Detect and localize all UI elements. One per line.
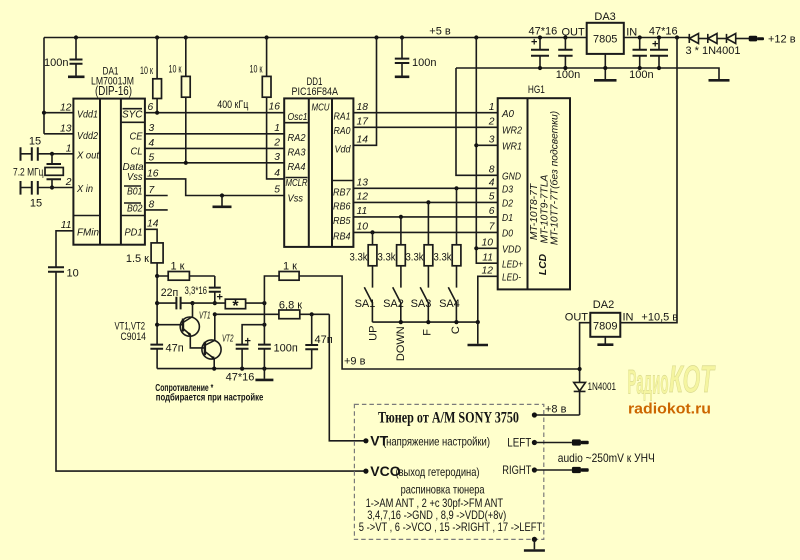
- svg-text:B02: B02: [127, 204, 143, 215]
- wire RA1 row to A0: [353, 112, 497, 114]
- wire switch bottom bus: [372, 321, 477, 323]
- svg-text:SA3: SA3: [411, 298, 432, 310]
- IC DA1 LM7001JM: [73, 66, 144, 245]
- diode VD 1N4001 (to +8): [574, 381, 616, 415]
- wire LED- to switch bus: [478, 276, 498, 322]
- wire RA0 row to WR2: [353, 126, 497, 128]
- svg-text:100n: 100n: [629, 69, 653, 81]
- wire between diodes: [717, 38, 727, 40]
- resistor 6,8 к: [215, 300, 329, 319]
- switch SA2: [383, 287, 404, 322]
- resistor 3.3k #4: [434, 188, 461, 287]
- capacitor C 100n (second, x=402): [395, 38, 437, 77]
- wire LEFT audio: [534, 442, 572, 444]
- svg-text:VT2: VT2: [222, 334, 234, 345]
- wire RB6 row to D2: [353, 201, 497, 203]
- svg-text:7.2 МГц: 7.2 МГц: [13, 167, 44, 179]
- LCD HG1: [498, 84, 570, 289]
- switch SA1: [355, 287, 376, 322]
- wire CE row to RA2: [145, 133, 284, 135]
- svg-text:SA2: SA2: [383, 298, 404, 310]
- svg-text:LED-: LED-: [502, 273, 521, 284]
- svg-text:RB6: RB6: [333, 202, 351, 213]
- svg-text:10 к: 10 к: [140, 65, 153, 77]
- ground at tuner: [533, 539, 535, 549]
- svg-text:+: +: [652, 39, 658, 51]
- svg-text:SYC: SYC: [122, 110, 143, 121]
- wire +5V top rail: [44, 37, 587, 39]
- HG1 rotated type labels: [529, 111, 561, 275]
- capacitor C 100n (left): [44, 38, 84, 77]
- svg-text:+9 в: +9 в: [344, 356, 366, 368]
- node bullet VT: [363, 438, 368, 443]
- quartz crystal 7.2 MHz: [13, 154, 63, 188]
- capacitor 15 (top, X out): [21, 136, 74, 161]
- svg-text:3 * 1N4001: 3 * 1N4001: [685, 45, 740, 57]
- svg-text:47*16: 47*16: [529, 26, 558, 38]
- svg-text:13: 13: [357, 178, 369, 189]
- node dot 47*16 top junction: [262, 323, 266, 327]
- wire between diodes: [699, 38, 708, 40]
- svg-text:LCD: LCD: [538, 253, 549, 275]
- wire left vertical to Vdd1/Vdd2: [43, 38, 45, 134]
- svg-text:подбирается при настройке: подбирается при настройке: [156, 392, 264, 404]
- svg-text:SA1: SA1: [355, 298, 376, 310]
- svg-text:VDD: VDD: [502, 245, 521, 256]
- resistor 10k #3: [250, 38, 285, 179]
- svg-text:10: 10: [357, 222, 369, 233]
- svg-text:100n: 100n: [556, 69, 580, 81]
- wire B01 stub: [145, 195, 168, 197]
- svg-text:Osc1: Osc1: [288, 112, 308, 123]
- DA1 pin numbers: [60, 102, 159, 231]
- wire rail to WR1/VDD/LED+ vertical: [476, 38, 497, 264]
- wire oscillator ground bus: [157, 368, 312, 370]
- node dots on oscillator line: [190, 301, 194, 305]
- DA1 pin names right column: [122, 109, 144, 239]
- svg-text:16: 16: [269, 102, 281, 113]
- svg-text:10 к: 10 к: [250, 64, 263, 76]
- capacitor 22п: [157, 287, 192, 310]
- tuner pinout text: [359, 483, 542, 534]
- node dot X in: [50, 185, 54, 189]
- svg-text:Vdd2: Vdd2: [77, 131, 98, 142]
- svg-text:RB7: RB7: [333, 188, 352, 199]
- node dot WR1: [474, 143, 478, 147]
- wire GND(HG1) up to ground bus: [456, 68, 498, 175]
- svg-text:+: +: [217, 292, 223, 304]
- voltage regulator DA2 7809: [565, 299, 634, 337]
- wire to +12 plug: [736, 38, 749, 40]
- wire Vdd(DD1) to rail: [353, 38, 376, 146]
- svg-text:SA4: SA4: [439, 298, 460, 310]
- wire VDD stub: [476, 247, 497, 249]
- node bullet tuner ground: [532, 537, 537, 542]
- svg-text:14: 14: [357, 135, 369, 146]
- resistor 10k #2: [169, 38, 191, 163]
- svg-text:B01: B01: [127, 187, 143, 198]
- svg-text:10 к: 10 к: [169, 64, 182, 76]
- ground at oscillator bus: [263, 369, 265, 379]
- wire Data row to RA4: [145, 162, 284, 164]
- svg-text:5: 5: [274, 185, 280, 196]
- svg-text:10: 10: [482, 238, 494, 249]
- svg-text:12: 12: [60, 103, 72, 114]
- svg-text:RA1: RA1: [334, 112, 351, 123]
- ground under 7805: [604, 54, 606, 79]
- ground under 7809: [604, 337, 606, 344]
- wire pin12 Vdd1: [44, 112, 73, 114]
- svg-text:2: 2: [488, 117, 495, 128]
- svg-text:(напряжение настройки): (напряжение настройки): [383, 436, 490, 449]
- svg-text:3,3*16: 3,3*16: [185, 285, 208, 297]
- svg-text:D0: D0: [502, 229, 513, 240]
- svg-text:F: F: [421, 329, 433, 336]
- svg-text:47*16: 47*16: [649, 26, 678, 38]
- svg-text:PD1: PD1: [125, 228, 143, 239]
- ground at switch bus: [477, 322, 479, 344]
- capacitor 47*16 (oscillator): [226, 325, 265, 384]
- svg-text:15: 15: [29, 136, 41, 148]
- svg-text:*: *: [232, 298, 239, 315]
- svg-text:2: 2: [273, 138, 280, 149]
- svg-text:A0: A0: [501, 109, 514, 120]
- svg-text:6: 6: [489, 206, 495, 217]
- svg-text:1 к: 1 к: [283, 261, 297, 273]
- svg-text:47*16: 47*16: [226, 372, 255, 384]
- resistor 3.3k #3: [406, 202, 433, 287]
- capacitor C 47*16 (right of 7805): [649, 26, 678, 69]
- svg-text:MT-10T8-7T: MT-10T8-7T: [529, 183, 540, 240]
- svg-text:5: 5: [489, 192, 495, 203]
- svg-text:LED+: LED+: [502, 260, 523, 271]
- svg-text:6,8 к: 6,8 к: [279, 300, 302, 312]
- wire +12 rail right of 7805: [624, 37, 690, 39]
- svg-text:RA4: RA4: [288, 162, 306, 173]
- svg-text:1.5 к: 1.5 к: [126, 253, 149, 265]
- svg-text:5: 5: [149, 153, 155, 164]
- node dot star/100п junction: [262, 301, 266, 305]
- svg-text:DOWN: DOWN: [395, 326, 407, 361]
- ground at Vss node: [221, 196, 223, 206]
- svg-text:8: 8: [149, 200, 155, 211]
- capacitor 47п #1: [150, 343, 183, 369]
- svg-text:5 ->VT , 6 ->VCO , 15 ->RIGHT: 5 ->VT , 6 ->VCO , 15 ->RIGHT , 17 ->LEF…: [359, 521, 542, 534]
- node dot VT2 collector / 6.8k: [213, 312, 217, 316]
- wire RB7 row to D3: [353, 187, 497, 189]
- svg-text:18: 18: [357, 102, 369, 113]
- connector plug +12: [749, 36, 758, 42]
- wire FMin cap down to VCO line: [56, 272, 366, 471]
- svg-text:100п: 100п: [274, 343, 298, 355]
- svg-text:WR1: WR1: [502, 142, 522, 153]
- svg-text:MT-10T7-7T(без подсветки): MT-10T7-7T(без подсветки): [549, 111, 561, 245]
- capacitor 15 (bottom, X in): [21, 181, 74, 210]
- svg-text:radiokot.ru: radiokot.ru: [628, 402, 711, 418]
- capacitor 3,3*16: [185, 276, 223, 304]
- wire 7809 OUT down: [580, 323, 591, 383]
- switch SA4: [439, 287, 460, 322]
- connector plug RIGHT: [572, 467, 581, 473]
- svg-text:100n: 100n: [412, 57, 436, 69]
- svg-text:(выход гетеродина): (выход гетеродина): [396, 466, 480, 479]
- diode VD1 1N4001: [689, 34, 698, 44]
- resistor 3.3k #1: [350, 232, 377, 287]
- node dot VDD row on vertical: [474, 246, 478, 250]
- HG1 pin numbers: [482, 102, 496, 277]
- svg-text:CL: CL: [131, 147, 143, 158]
- svg-text:100n: 100n: [44, 57, 68, 69]
- svg-text:+: +: [245, 336, 251, 348]
- svg-text:RA3: RA3: [288, 148, 306, 159]
- svg-text:+12 в: +12 в: [768, 34, 796, 46]
- svg-text:(DIP-16): (DIP-16): [95, 84, 132, 98]
- svg-text:4: 4: [489, 178, 495, 189]
- svg-text:КОТ: КОТ: [669, 359, 716, 401]
- svg-text:UP: UP: [368, 326, 380, 341]
- DA1 pin names left column: [76, 110, 100, 239]
- HG1 pin names: [501, 109, 523, 284]
- svg-text:D2: D2: [502, 199, 513, 210]
- svg-text:распиновка тюнера: распиновка тюнера: [401, 483, 485, 496]
- wire +8 line to tuner: [534, 414, 579, 416]
- svg-text:7809: 7809: [593, 321, 617, 333]
- svg-text:DA2: DA2: [593, 299, 614, 311]
- wire +12 vertical down to 7809 IN: [620, 38, 677, 323]
- svg-text:11: 11: [357, 206, 368, 217]
- capacitor 47п #2: [305, 314, 332, 368]
- svg-text:1: 1: [66, 144, 72, 155]
- svg-text:3: 3: [149, 123, 155, 134]
- voltage regulator DA3 7805: [561, 11, 637, 54]
- svg-text:X out: X out: [76, 151, 100, 162]
- wire RB5 row to D1: [353, 216, 497, 218]
- svg-text:audio ~250mV к УНЧ: audio ~250mV к УНЧ: [558, 451, 655, 465]
- wire pin13 Vdd2: [44, 133, 73, 135]
- wire RB4 row to D0: [353, 231, 497, 233]
- svg-text:14: 14: [147, 219, 159, 230]
- svg-text:RB4: RB4: [333, 232, 351, 243]
- svg-text:Тюнер от А/М SONY 3750: Тюнер от А/М SONY 3750: [378, 410, 519, 427]
- resistor 1k #1: [157, 261, 215, 281]
- svg-text:Радио: Радио: [628, 364, 669, 402]
- diode VD2 1N4001: [708, 34, 717, 44]
- svg-text:3.3k: 3.3k: [378, 252, 396, 264]
- capacitor 10 (FMin): [48, 267, 79, 279]
- svg-text:3.3k: 3.3k: [406, 252, 424, 264]
- svg-text:RA2: RA2: [288, 133, 306, 144]
- wire Vss(DA1) stepped to Vss(DD1): [145, 179, 284, 196]
- svg-text:D3: D3: [502, 185, 513, 196]
- wire WR1 stub: [476, 144, 497, 146]
- svg-text:4: 4: [274, 168, 280, 179]
- node dot +9 junction: [578, 367, 582, 371]
- node dot 1k/1.5k junction: [155, 274, 159, 278]
- wire 6.8k to VT terminal: [329, 314, 366, 441]
- svg-text:22п: 22п: [161, 287, 179, 299]
- capacitor C 100n (left of 7805): [556, 38, 580, 82]
- svg-text:13: 13: [60, 124, 72, 135]
- svg-text:8: 8: [489, 165, 495, 176]
- connector plug LEFT: [572, 439, 581, 445]
- svg-text:PIC16F84A: PIC16F84A: [292, 86, 339, 98]
- resistor 10k #1: [140, 38, 162, 113]
- svg-text:3.3k: 3.3k: [434, 252, 452, 264]
- node bullet LEFT: [532, 440, 537, 445]
- svg-text:OUT: OUT: [565, 312, 589, 324]
- resistor * (select on tuning): [225, 298, 264, 315]
- svg-text:MCU: MCU: [312, 103, 330, 114]
- node dot 47п#2: [310, 312, 314, 316]
- wire PD1 to 1.5k: [145, 229, 157, 243]
- svg-text:1: 1: [489, 102, 495, 113]
- svg-text:RA0: RA0: [334, 126, 351, 137]
- svg-text:C: C: [450, 326, 462, 334]
- DD1 pin numbers: [269, 102, 370, 233]
- svg-text:CE: CE: [130, 132, 143, 143]
- node rail junction dots: [74, 35, 78, 39]
- node bullet VCO: [363, 469, 368, 474]
- svg-text:FMin: FMin: [77, 228, 99, 239]
- diode VD3 1N4001: [727, 34, 736, 44]
- svg-text:17: 17: [357, 117, 370, 128]
- wire RIGHT audio: [534, 469, 572, 471]
- svg-text:GND: GND: [502, 172, 521, 183]
- svg-text:RB5: RB5: [333, 216, 351, 227]
- wire SYC row to Osc1: [145, 112, 284, 114]
- svg-text:X in: X in: [76, 184, 93, 195]
- svg-text:1N4001: 1N4001: [588, 381, 617, 393]
- svg-text:1: 1: [274, 123, 280, 134]
- tuner dashed box: [354, 404, 543, 539]
- node dot X out: [50, 152, 54, 156]
- svg-text:D1: D1: [502, 213, 513, 224]
- svg-text:C9014: C9014: [121, 331, 147, 343]
- svg-text:10: 10: [67, 268, 79, 280]
- transistor VT1: [157, 303, 210, 348]
- node dot pin12: [42, 111, 46, 115]
- wire node vertical x=157 down: [156, 276, 158, 345]
- svg-text:12: 12: [357, 192, 369, 203]
- svg-text:+10,5 в: +10,5 в: [641, 312, 678, 324]
- ground at right end of bus: [709, 79, 730, 82]
- wire FMin pin11: [56, 231, 73, 267]
- svg-text:Vdd: Vdd: [335, 145, 351, 156]
- node bullet RIGHT: [532, 467, 537, 472]
- svg-text:Vdd1: Vdd1: [77, 110, 98, 121]
- svg-text:RIGHT: RIGHT: [502, 463, 532, 477]
- svg-text:4: 4: [149, 138, 155, 149]
- switch SA3: [411, 287, 432, 322]
- svg-text:15: 15: [30, 198, 42, 210]
- svg-text:400 кГц: 400 кГц: [217, 99, 249, 111]
- svg-text:12: 12: [482, 266, 494, 277]
- svg-text:16: 16: [147, 169, 159, 180]
- wire ground bus y=68: [456, 68, 719, 79]
- svg-text:Vss: Vss: [288, 194, 304, 205]
- svg-text:+5 в: +5 в: [429, 26, 451, 38]
- svg-text:LEFT: LEFT: [507, 436, 532, 450]
- DD1 pin names: [286, 103, 352, 243]
- svg-text:3: 3: [274, 152, 280, 163]
- svg-text:6: 6: [148, 102, 154, 113]
- resistor 1.5k: [126, 243, 163, 276]
- svg-text:47п: 47п: [166, 343, 184, 355]
- svg-text:IN: IN: [623, 312, 634, 324]
- resistor 3.3k #2: [378, 217, 406, 288]
- logo Радио КОТ: [628, 359, 716, 402]
- capacitor 100п: [258, 303, 298, 369]
- wire node line to star resistor: [193, 302, 226, 304]
- svg-text:DA3: DA3: [594, 11, 615, 23]
- svg-text:MCLR: MCLR: [286, 178, 308, 189]
- svg-text:+8 в: +8 в: [545, 404, 567, 416]
- svg-text:11: 11: [482, 253, 493, 264]
- svg-text:3.3k: 3.3k: [350, 252, 368, 264]
- svg-text:VT1: VT1: [199, 311, 211, 322]
- capacitor C 47*16 (left of 7805): [529, 26, 558, 69]
- svg-text:3: 3: [489, 135, 495, 146]
- svg-text:WR2: WR2: [502, 126, 522, 137]
- svg-text:OUT: OUT: [561, 27, 585, 39]
- wire CL row to RA3: [145, 147, 284, 149]
- svg-text:2: 2: [65, 177, 72, 188]
- svg-text:1 к: 1 к: [171, 261, 185, 273]
- wire B02 stub: [145, 209, 168, 211]
- IC DD1 PIC16F84A: [284, 76, 353, 247]
- svg-text:Vss: Vss: [127, 172, 143, 183]
- resistor 1k #2: [264, 261, 579, 370]
- transistor VT2: [202, 314, 234, 368]
- svg-text:11: 11: [61, 220, 72, 231]
- svg-text:+: +: [531, 37, 537, 49]
- svg-text:HG1: HG1: [528, 84, 545, 96]
- node bullet +8: [532, 412, 537, 417]
- svg-text:7805: 7805: [593, 34, 617, 46]
- capacitor C 100n (right of 7805): [629, 38, 653, 82]
